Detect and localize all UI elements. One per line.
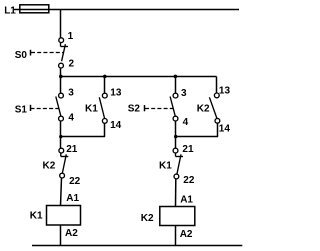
pin 4 terminal of S1 [59, 116, 64, 121]
svg-text:4: 4 [68, 113, 74, 124]
wire S2 stub from rail [175, 77, 177, 94]
svg-text:14: 14 [110, 120, 122, 131]
svg-text:K2: K2 [141, 213, 154, 224]
wire main vertical drop to S0 [60, 10, 62, 38]
wire K1 NC pin22 down to coil K2 [175, 179, 177, 207]
wire left rung down to K2 NC [60, 137, 62, 149]
switch S1 actuator T-bar [30, 105, 32, 111]
contact K2 NC stub [60, 153, 62, 157]
wire coil K2 down to bottom rail [175, 226, 177, 246]
svg-text:A1: A1 [180, 194, 193, 205]
pin 14 terminal of K2 contact [215, 118, 220, 123]
svg-text:K2: K2 [197, 103, 210, 114]
contact K2 NC moving blade [62, 154, 66, 173]
switch S2 actuator T-bar [144, 105, 146, 111]
wire bottom rail [32, 245, 242, 247]
switch S0 NC tick [61, 46, 69, 48]
wire top rail segment through fuse [20, 9, 49, 11]
contact K1 NC moving blade [177, 154, 181, 174]
wire lower parallel rail left [61, 136, 106, 138]
pin 13 terminal of K2 contact [214, 93, 219, 98]
svg-text:A2: A2 [65, 228, 78, 239]
wire coil K1 down to bottom rail [60, 225, 62, 246]
pin 14 terminal of K1 contact [102, 119, 107, 124]
contact K1 NO moving blade [99, 97, 104, 118]
pin 4 terminal of S2 [173, 116, 178, 121]
pin 2 terminal of S0 [59, 63, 64, 68]
pin 21 terminal of K2 NC [59, 148, 64, 153]
wire K2 pin14 down to lower rail right [217, 123, 219, 136]
svg-text:14: 14 [219, 124, 231, 135]
contact K1 NC tick [176, 156, 184, 158]
wire S1 stub from rail [60, 77, 62, 94]
switch S0 actuator dashed link [31, 52, 63, 54]
wire K2 NC pin22 down to coil K1 [61, 178, 62, 206]
pin 22 terminal of K1 NC [174, 174, 179, 179]
wire S1 pin4 down to lower junction [60, 121, 62, 137]
wire lower parallel rail right [176, 136, 219, 138]
switch S1 NO moving blade [56, 97, 61, 117]
switch S1 actuator dashed link [31, 108, 59, 110]
svg-text:K1: K1 [30, 210, 43, 221]
svg-text:2: 2 [69, 59, 75, 70]
svg-text:S0: S0 [15, 50, 28, 61]
svg-text:22: 22 [183, 175, 195, 186]
svg-text:K2: K2 [43, 160, 56, 171]
svg-text:13: 13 [110, 88, 122, 99]
wire right rung down to K1 NC [175, 137, 177, 149]
svg-text:21: 21 [66, 144, 78, 155]
pin 3 terminal of S2 [173, 93, 178, 98]
pin 1 terminal of S0 [59, 38, 64, 43]
svg-text:K1: K1 [159, 160, 172, 171]
fuse F1 body [20, 5, 49, 13]
pin 21 terminal of K1 NC [173, 148, 178, 153]
svg-text:3: 3 [181, 88, 187, 99]
switch S2 actuator dashed link [145, 108, 173, 110]
svg-text:S2: S2 [128, 104, 141, 115]
svg-text:1: 1 [68, 31, 74, 42]
wire branch rail [61, 76, 217, 78]
switch S0 actuator T-bar [30, 50, 32, 56]
wire K1 pin14 down to lower rail [104, 123, 106, 136]
coil K2 body [160, 207, 195, 226]
wire K1 contact stub from rail [104, 77, 106, 94]
node lower junction dot left [59, 135, 62, 138]
pin 13 terminal of K1 contact [102, 93, 107, 98]
svg-text:A2: A2 [180, 229, 193, 240]
svg-text:A1: A1 [66, 193, 79, 204]
switch S2 NO moving blade [170, 97, 175, 117]
node junction dot K1 branch [103, 75, 107, 79]
svg-text:3: 3 [68, 88, 74, 99]
wire top rail from L1 to right end [14, 9, 239, 11]
wire S2 pin4 down to lower junction right [175, 121, 177, 137]
wire K2 contact stub from rail corner [216, 77, 218, 94]
contact K2 NC tick [61, 156, 69, 158]
svg-text:L1: L1 [4, 5, 16, 16]
coil K1 body [47, 206, 81, 226]
pin 22 terminal of K2 NC [60, 173, 65, 178]
node junction dot main [59, 75, 63, 79]
switch S0 moving blade [62, 44, 66, 61]
svg-text:4: 4 [183, 117, 189, 128]
svg-text:13: 13 [219, 85, 231, 96]
svg-text:S1: S1 [15, 105, 28, 116]
node junction dot S2 branch [174, 75, 178, 79]
svg-text:22: 22 [69, 176, 81, 187]
contact K1 NC stub [175, 153, 177, 157]
wire from S0 pin2 to junction [60, 68, 62, 77]
switch S0 NC fixed contact stub [60, 43, 62, 47]
svg-text:21: 21 [182, 144, 194, 155]
contact K2 NO moving blade [209, 97, 217, 118]
svg-text:K1: K1 [85, 104, 98, 115]
pin 3 terminal of S1 [59, 93, 64, 98]
node lower junction dot right [174, 135, 177, 138]
